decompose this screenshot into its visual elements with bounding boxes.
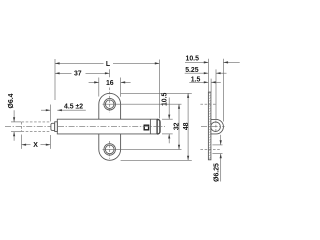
dim 48 (flange length) (187, 93, 189, 160)
svg-text:L: L (106, 61, 110, 68)
dim 32 (hole spacing) (178, 104, 180, 149)
body joint line (149, 119, 151, 134)
thick end cap (157, 119, 160, 134)
svg-text:Ø6.25: Ø6.25 (214, 163, 221, 182)
extended plunger (dashed) (22, 121, 51, 123)
dim 37 (109, 69, 111, 77)
svg-text:1.5: 1.5 (191, 76, 201, 83)
ext lines top of side view (207, 59, 209, 92)
svg-text:16: 16 (106, 80, 114, 87)
svg-text:37: 37 (74, 70, 82, 77)
svg-text:10.5: 10.5 (186, 56, 200, 63)
svg-text:10.5: 10.5 (162, 92, 169, 106)
mounting flange (stadium outline) (99, 93, 121, 160)
side top hole centerline (200, 103, 216, 105)
boss centerlines (201, 126, 225, 128)
svg-text:Ø6.4: Ø6.4 (8, 93, 15, 108)
main axis centerline (5, 126, 165, 128)
dim diameter 6.25 (212, 144, 222, 146)
dim 5.25 (185, 72, 209, 74)
svg-text:4.5 ±2: 4.5 ±2 (64, 103, 83, 110)
stadium top/bottom extension lines (121, 92, 192, 94)
magnet square detail (144, 125, 148, 130)
dim 10.5 (bar height) (168, 98, 170, 120)
bar top/bottom extension lines (162, 118, 173, 120)
side view strip (208, 92, 211, 160)
svg-text:48: 48 (183, 122, 190, 130)
dim 10.5 (side) (185, 61, 208, 63)
svg-text:X: X (33, 142, 38, 149)
bottom screw hole (104, 144, 116, 156)
bumper washer (55, 122, 58, 132)
hole center extension lines (103, 103, 182, 105)
top screw hole (104, 98, 116, 110)
dim 16 (98, 78, 100, 97)
side bottom hole centerline (200, 148, 220, 150)
boss bore circle (211, 122, 221, 132)
housing body bar (57, 119, 160, 134)
side view boss (211, 119, 224, 133)
dim 1.5 (189, 81, 208, 83)
dim 4.5 +-2 (49, 105, 51, 122)
dim L (54, 59, 56, 100)
rubber bumper tip (51, 123, 55, 130)
flange vertical centerline (109, 88, 111, 114)
dim X (21, 135, 23, 149)
svg-text:5.25: 5.25 (185, 67, 199, 74)
svg-text:32: 32 (174, 122, 181, 130)
dim diameter 6.4 (11, 121, 21, 123)
